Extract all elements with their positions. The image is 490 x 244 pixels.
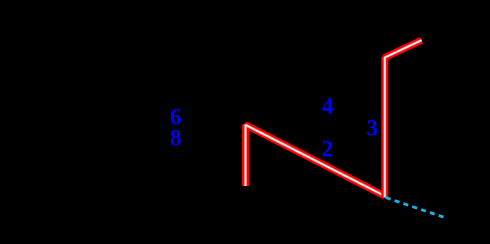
svg-text:8: 8 xyxy=(170,126,182,151)
svg-text:3: 3 xyxy=(367,116,379,141)
svg-text:2: 2 xyxy=(322,136,334,161)
wire: red segment 3+4 (flyback vertical + top trace) xyxy=(385,40,422,197)
svg-text:4: 4 xyxy=(322,94,334,119)
wire: cyan dashed continuation xyxy=(386,198,446,218)
wire: red segment 1+2 (left vertical + descending trace) xyxy=(246,125,385,196)
